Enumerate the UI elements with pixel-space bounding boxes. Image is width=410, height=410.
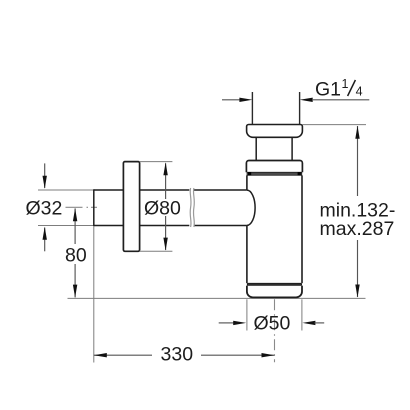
svg-text:Ø32: Ø32 [26,197,63,219]
wire min-max top extension [303,124,367,126]
union nut [246,161,302,173]
svg-text:Ø50: Ø50 [254,313,291,335]
svg-text:Ø80: Ø80 [144,197,181,219]
centerline body axis [274,299,276,362]
wire Ø80 extension line bottom [140,250,173,252]
wire Ø50 extension right [301,299,303,330]
wire Ø80 extension line top [140,161,173,163]
centerline pipe axis [66,206,98,208]
wire Ø50 extension left [246,299,248,330]
bottom seam band [247,283,302,285]
svg-text:max.287: max.287 [320,218,395,240]
svg-text:80: 80 [65,244,87,266]
svg-text:330: 330 [161,344,194,366]
trap body [247,175,302,283]
svg-text:4: 4 [356,85,363,99]
bottom reference line [68,297,366,299]
dimension G1 1/4 [222,77,369,102]
wall flange (escutcheon) [123,162,139,252]
svg-text:1: 1 [342,77,349,91]
trap top flange [247,125,303,138]
dimension Ø80 [144,162,181,250]
horizontal inlet pipe [94,189,247,226]
wire Ø32 extension line bottom [38,225,94,227]
dimension min.132-max.287 [320,126,396,298]
dimension 330 [94,344,275,366]
wire 330 left extension line [93,226,95,362]
trap neck [255,137,257,160]
dimension Ø32 [26,163,63,251]
o-ring band top [247,172,302,175]
tailpiece pipe [251,92,253,125]
wire Ø32 extension line top [38,189,94,191]
dimension 80 vertical [65,208,87,297]
pipe break symbol [189,188,192,227]
inlet cap arc [247,190,255,225]
svg-text:G1: G1 [315,79,341,101]
dimension Ø50 [219,313,325,335]
bottom cap [247,286,302,298]
